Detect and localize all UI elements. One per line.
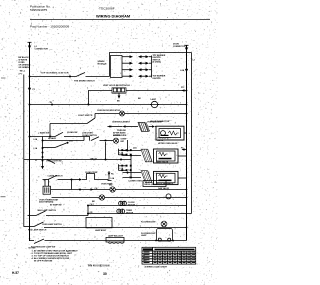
indicator lamp DS3 <box>109 185 115 193</box>
page fold mark <box>1 78 6 79</box>
wire K1 column <box>105 142 107 160</box>
wire top burner circuit <box>29 73 77 78</box>
notes block <box>29 248 79 263</box>
wire receptacle feed <box>89 91 113 105</box>
node L1 power connector arrow <box>28 42 49 50</box>
connector P2 pins <box>119 149 132 156</box>
connector P1 arrow <box>28 88 36 92</box>
fluorescent tube <box>141 229 174 242</box>
wire selector row <box>43 132 127 142</box>
switch spark ignition <box>74 73 110 83</box>
valve box C broil valve <box>154 171 187 189</box>
header publication number <box>30 4 51 12</box>
lamp fluorescent indicator <box>141 221 167 227</box>
spark electrodes rows <box>122 55 152 77</box>
heating element E1 <box>108 122 157 137</box>
wire neutral left bus <box>23 75 25 227</box>
element bake row labels <box>112 121 163 123</box>
wire riser to door connector <box>110 53 192 77</box>
wire L1 left bus <box>29 42 31 241</box>
wire lamp feed row 2 <box>87 212 192 215</box>
connector arrow below receptacle <box>117 93 120 103</box>
connector P4 drop <box>108 171 115 180</box>
wire bake valve feeds <box>123 146 142 156</box>
node P2 right <box>181 148 187 151</box>
clock motor M2 <box>119 201 136 206</box>
wire receptacle to L2 bus <box>126 87 187 100</box>
switch oven lamp <box>24 222 187 232</box>
wire color legend <box>19 56 32 75</box>
switch selector 2 <box>43 137 74 148</box>
indicator lamp DS1 <box>120 111 125 116</box>
valve box B bake valve <box>154 149 187 163</box>
bimetal broil <box>141 171 152 183</box>
wire broil valve feeds <box>123 169 143 182</box>
wire second thermostat row <box>52 197 187 199</box>
timer motor M3 <box>117 209 134 214</box>
valve bake labels <box>157 137 171 142</box>
node tap column <box>34 137 45 170</box>
indicator lamp DS4 <box>92 195 105 203</box>
door connector label <box>173 44 186 48</box>
switch oven door light <box>50 114 95 137</box>
wire main horizontal L1A <box>29 102 187 105</box>
switch max lamp <box>28 205 89 216</box>
header rule <box>30 18 210 20</box>
wire right bus 2 <box>191 53 193 214</box>
wire thermostat row <box>51 188 187 191</box>
wire oven door indicator row <box>95 109 187 113</box>
table caption <box>187 251 190 254</box>
top burner ignitor labels <box>153 55 166 80</box>
valve box A oven door latch <box>150 120 187 145</box>
switch fluorescent lamp <box>30 239 187 248</box>
wire oven temp row <box>43 171 115 186</box>
switch clean row <box>29 131 85 137</box>
wire relay row <box>24 157 131 163</box>
wire thermostat drop <box>79 189 81 191</box>
wire element group verticals <box>128 140 132 178</box>
thermostat TH1 <box>39 180 59 204</box>
motor M1 <box>166 194 171 199</box>
connector P3 pins <box>119 164 132 171</box>
node L2A arrow <box>180 69 188 229</box>
lamp assembly box <box>86 218 112 233</box>
wire L2 right bus <box>185 45 189 240</box>
lamp oven light <box>150 98 159 108</box>
indicator lamp DS2 <box>113 138 126 143</box>
bimetal bake <box>141 149 152 162</box>
valve label box top <box>143 181 174 187</box>
vent hood receptacle J1 <box>103 84 130 93</box>
legend table <box>142 247 196 264</box>
spark module U1 <box>98 56 123 78</box>
wire lamp feed row 1 <box>87 204 187 206</box>
lamp L1 with pins <box>106 234 124 243</box>
